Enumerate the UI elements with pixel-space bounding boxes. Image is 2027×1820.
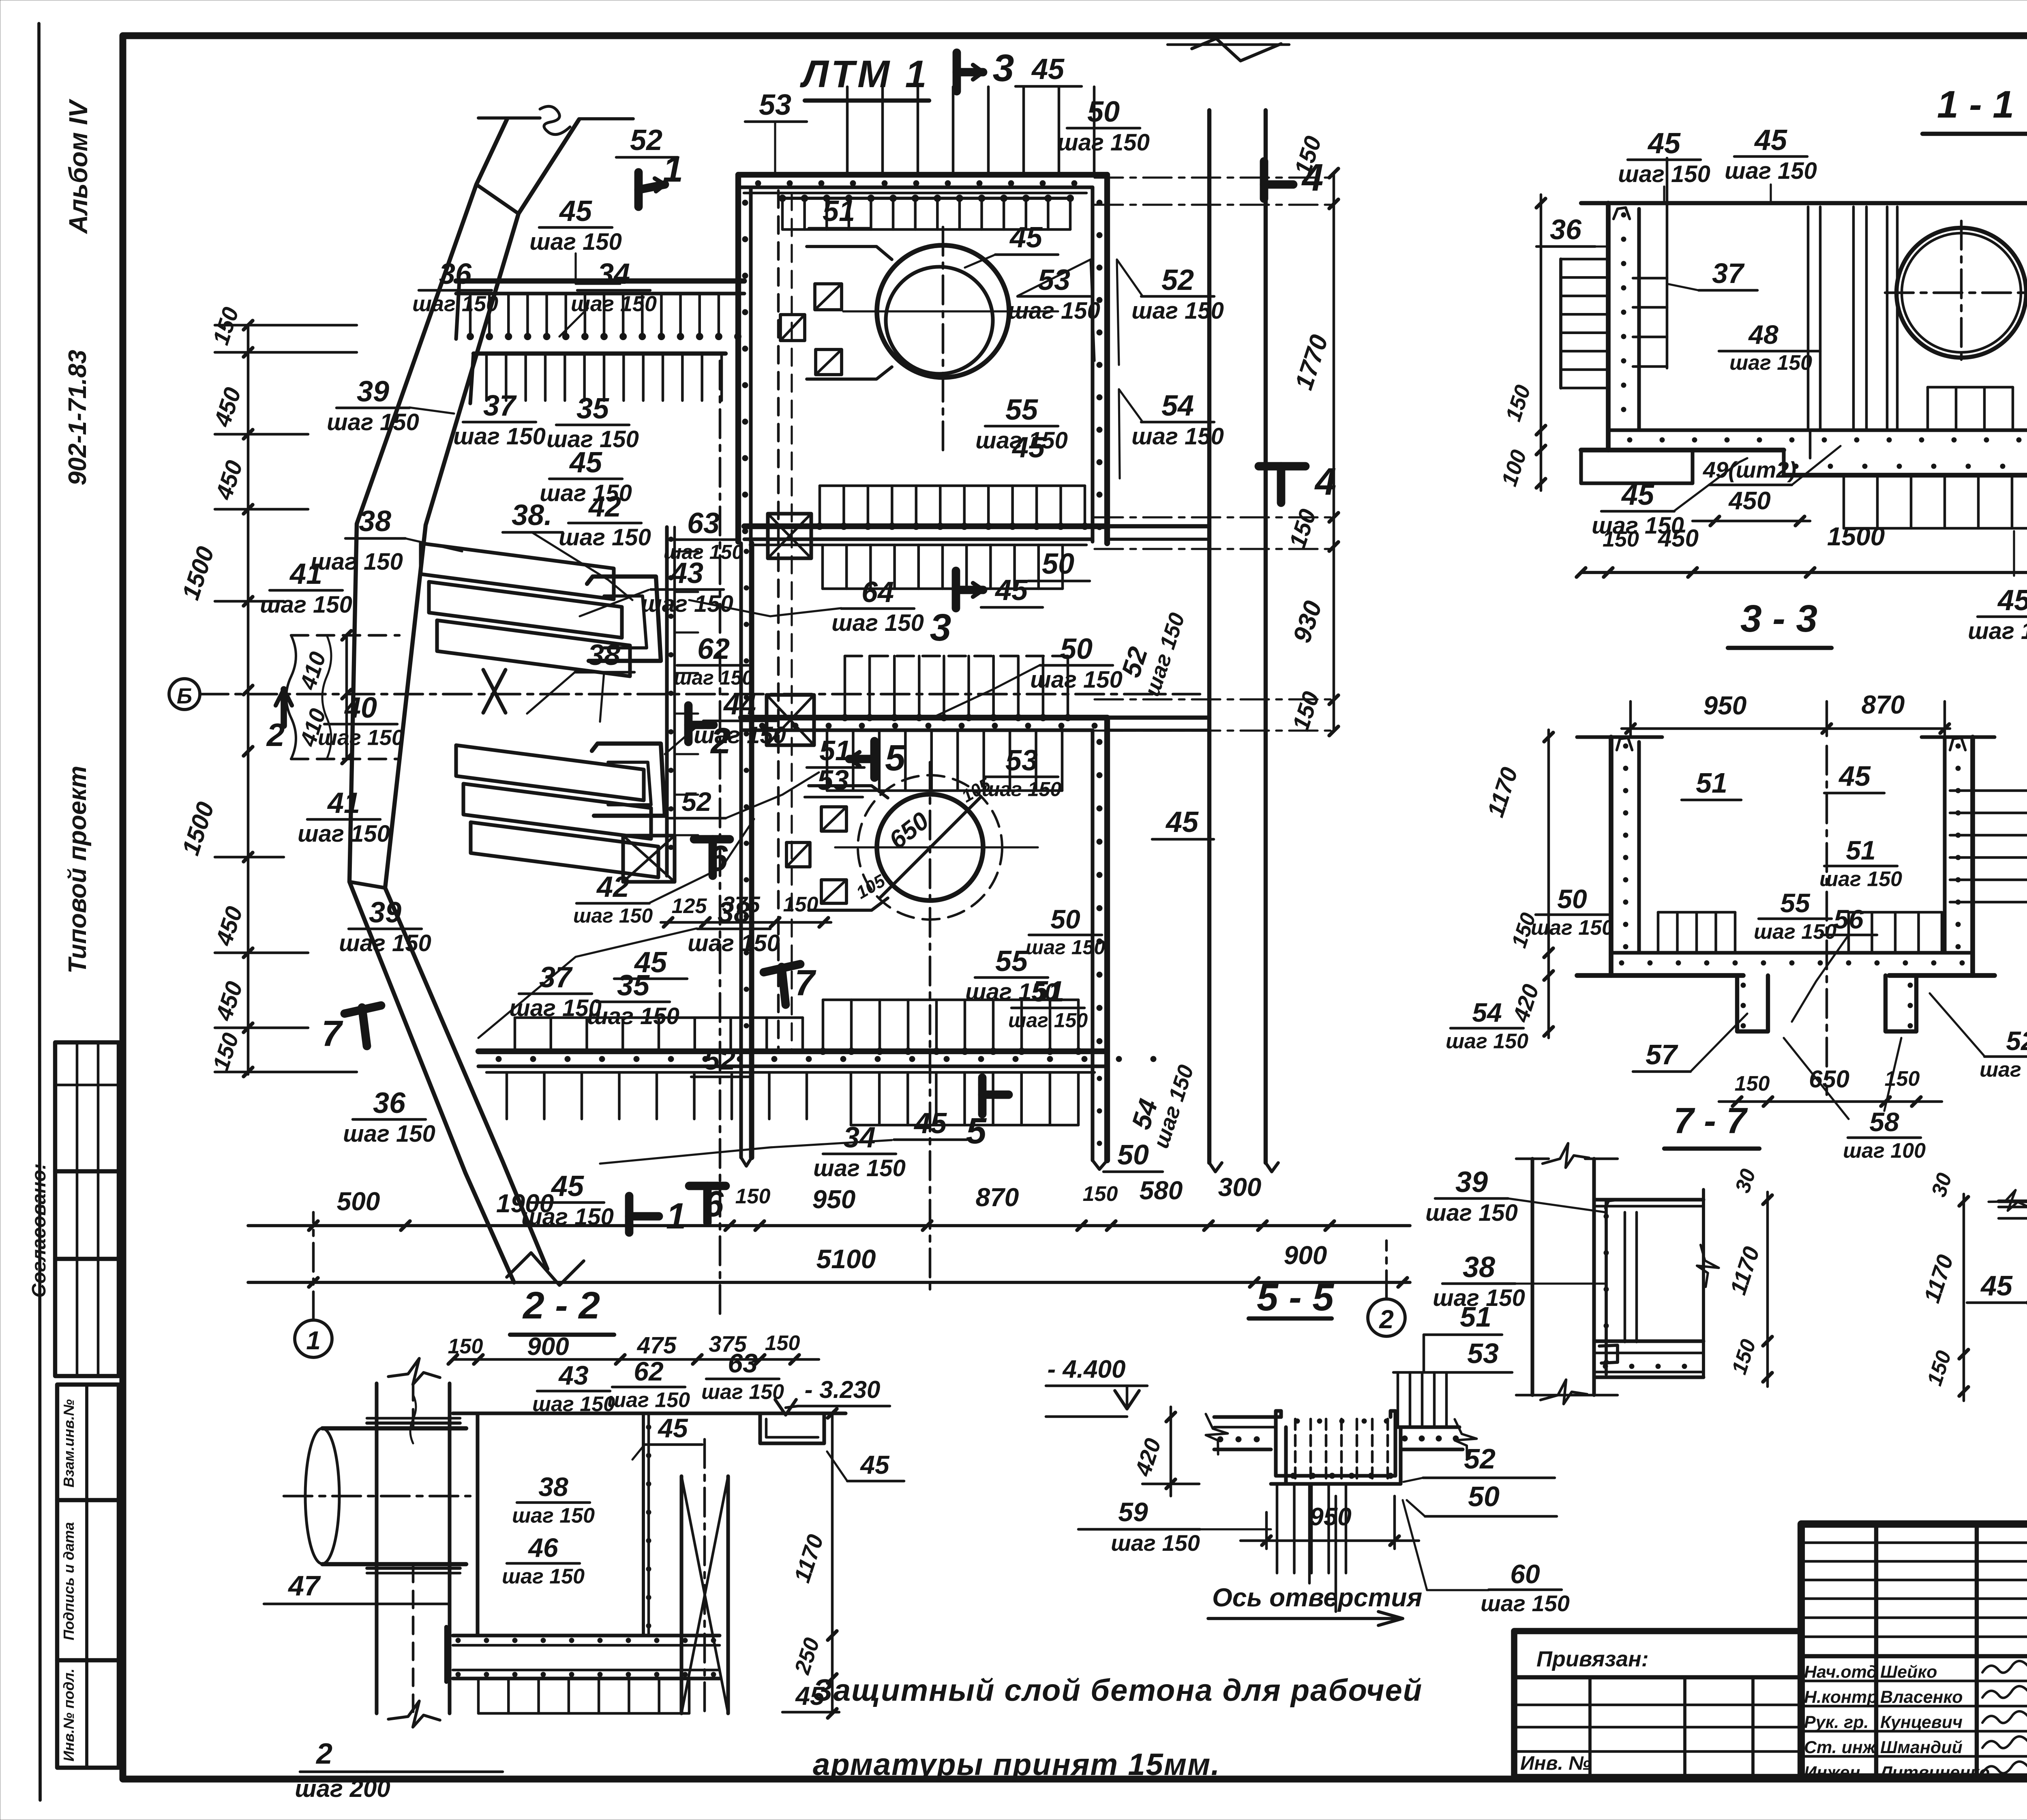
section mark 2 mid (684, 705, 693, 742)
3-3 bottom dims (1719, 1100, 1942, 1103)
svg-text:шаг 150: шаг 150 (559, 524, 651, 551)
svg-text:45: 45 (1009, 221, 1043, 254)
svg-text:шаг 150: шаг 150 (1968, 618, 2027, 644)
svg-text:шаг 150: шаг 150 (1446, 1029, 1528, 1053)
svg-text:1: 1 (306, 1326, 321, 1355)
svg-text:Инв. №: Инв. № (1520, 1753, 1591, 1774)
svg-text:52: 52 (2006, 1026, 2027, 1056)
1-1 left foot (1581, 450, 1693, 483)
svg-text:шаг 150: шаг 150 (1008, 298, 1100, 324)
svg-text:950: 950 (1703, 691, 1747, 720)
svg-text:шаг 150: шаг 150 (641, 591, 733, 617)
dashed circle around lower opening (858, 775, 1002, 920)
svg-text:300: 300 (1218, 1173, 1262, 1202)
svg-text:150: 150 (783, 893, 819, 916)
section mark 3 mid (952, 571, 960, 608)
svg-text:41: 41 (327, 787, 360, 819)
1-1 comb below floor (1843, 475, 1845, 528)
svg-text:1: 1 (663, 149, 683, 190)
svg-text:шаг 150: шаг 150 (529, 229, 622, 255)
svg-text:150: 150 (765, 1331, 800, 1355)
svg-text:53: 53 (1038, 264, 1070, 296)
svg-text:Н.контр: Н.контр (1804, 1687, 1878, 1707)
svg-text:шаг 150: шаг 150 (512, 1504, 595, 1527)
svg-text:38: 38 (588, 639, 620, 671)
dim 410 ticks near pipe (345, 635, 348, 759)
channel profile upper (587, 577, 661, 661)
svg-text:шаг 150: шаг 150 (339, 930, 431, 956)
svg-text:45: 45 (1997, 584, 2027, 617)
svg-text:Альбом IV: Альбом IV (64, 99, 93, 235)
comb below bottom wall (teeth down) (850, 1072, 853, 1125)
3-3 left dim chain (1547, 730, 1550, 1038)
6-6 top slab (1999, 1199, 2027, 1203)
7-7 bottom slab lines (1594, 1339, 1703, 1343)
svg-text:55: 55 (995, 945, 1028, 978)
comb above bottom wall lower right (822, 1000, 825, 1051)
svg-text:шаг 150: шаг 150 (1754, 920, 1836, 943)
vertical rebar pair mid plan (665, 527, 669, 876)
title block outer (1801, 1524, 2027, 1777)
svg-text:7 - 7: 7 - 7 (1673, 1101, 1748, 1141)
svg-text:64: 64 (861, 576, 894, 609)
5-5 left slab (1214, 1415, 1281, 1419)
7-7 vertical rebar (1605, 1200, 1608, 1374)
svg-text:37: 37 (483, 390, 517, 422)
svg-text:50: 50 (1060, 633, 1093, 665)
svg-text:52: 52 (704, 1044, 735, 1076)
svg-text:шаг 150: шаг 150 (1592, 512, 1684, 539)
7-7 hooks (1599, 1345, 1618, 1363)
svg-text:Рук. гр.: Рук. гр. (1804, 1713, 1868, 1732)
svg-text:шаг 150: шаг 150 (412, 292, 498, 316)
section mark 5 lower (978, 1078, 987, 1114)
svg-text:шаг 150: шаг 150 (1531, 916, 1613, 939)
axis circle Б (169, 679, 200, 710)
svg-text:45: 45 (1838, 760, 1871, 792)
svg-text:Б: Б (177, 684, 192, 708)
svg-text:- 3.230: - 3.230 (805, 1376, 881, 1403)
svg-text:шаг 150: шаг 150 (327, 409, 419, 435)
svg-text:шаг 150: шаг 150 (1057, 129, 1150, 156)
svg-text:Нач.отд: Нач.отд (1804, 1662, 1877, 1682)
svg-text:Инжен.: Инжен. (1804, 1763, 1865, 1782)
svg-text:шаг 150: шаг 150 (521, 1204, 614, 1230)
svg-text:4: 4 (1301, 156, 1324, 199)
svg-text:50: 50 (1087, 96, 1120, 128)
lower circle opening (877, 794, 983, 900)
section mark 7 left (345, 1005, 381, 1014)
svg-text:52: 52 (1464, 1443, 1496, 1475)
6-6 break left top (1988, 1184, 2027, 1216)
svg-text:шаг 150: шаг 150 (343, 1121, 435, 1147)
svg-text:45: 45 (1621, 479, 1654, 511)
svg-text:шаг 150: шаг 150 (1111, 1530, 1200, 1556)
7-7 wall verticals (1530, 1159, 1534, 1395)
svg-text:500: 500 (337, 1187, 380, 1216)
420 dim 5-5 (1170, 1407, 1172, 1496)
section mark 4 top (1260, 161, 1268, 199)
1-1 bottom dim row A (1693, 520, 1810, 523)
5-5 right slab (1395, 1425, 1459, 1429)
svg-text:55: 55 (1780, 888, 1811, 918)
svg-text:50: 50 (1557, 884, 1587, 914)
svg-text:Шейко: Шейко (1880, 1662, 1937, 1682)
svg-text:650: 650 (1809, 1065, 1849, 1093)
svg-text:62: 62 (697, 633, 730, 665)
svg-text:150: 150 (1735, 1072, 1770, 1095)
svg-text:шаг 200: шаг 200 (295, 1775, 390, 1802)
2-2 x-braced column (679, 1476, 683, 1713)
left margin table: Согласовано block (55, 1042, 119, 1376)
svg-text:870: 870 (1862, 690, 1905, 719)
section mark 5 upper (870, 741, 879, 778)
outer left margin line (39, 24, 40, 1800)
svg-text:7: 7 (795, 963, 816, 1003)
2-2 right step (63 corner) (760, 1413, 824, 1443)
svg-text:38: 38 (718, 896, 750, 929)
signature rows (1801, 1680, 2027, 1683)
svg-text:47: 47 (287, 1570, 321, 1601)
svg-text:38.: 38. (512, 499, 552, 532)
comb above bottom wall left part (514, 1018, 516, 1051)
upper room walls (plan) (738, 172, 1107, 178)
hatched anchor squares upper room (815, 284, 842, 310)
right vertical dim chain (1333, 173, 1335, 731)
centerlines of upper circle (942, 227, 945, 456)
comb below bottom wall (821, 545, 824, 589)
comb above bottom wall (819, 486, 821, 526)
lower room walls (741, 715, 1107, 720)
2-2 left end plate (444, 1627, 448, 1682)
channel profile lower (592, 744, 665, 816)
1-1 top hooks (1613, 208, 1630, 219)
svg-text:51: 51 (819, 735, 851, 766)
axis circle 2 (1368, 1299, 1405, 1336)
3-3 feet (1737, 975, 1768, 1031)
svg-text:34: 34 (843, 1121, 876, 1154)
crossed box at lower room top-left (767, 695, 814, 745)
2-2 bottom slab (453, 1633, 720, 1637)
2-2 pipe cylinder (305, 1428, 339, 1564)
5-5 trough (1276, 1411, 1395, 1476)
svg-text:5: 5 (885, 738, 906, 778)
5-5 comb top right (1397, 1372, 1399, 1425)
long right wall verticals (1207, 110, 1211, 1163)
svg-text:Типовой проект: Типовой проект (64, 766, 92, 974)
svg-text:Кунцевич: Кунцевич (1880, 1713, 1963, 1732)
svg-text:475: 475 (637, 1332, 677, 1359)
svg-text:39: 39 (369, 896, 401, 929)
svg-text:63: 63 (687, 507, 720, 540)
svg-text:Инв.№ подл.: Инв.№ подл. (60, 1668, 77, 1761)
svg-text:50: 50 (1050, 904, 1080, 934)
svg-text:580: 580 (1140, 1176, 1183, 1205)
svg-text:Защитный слой бетона для ра: Защитный слой бетона для рабочей (813, 1673, 1423, 1708)
crossed box upper corridor (768, 514, 811, 558)
svg-text:шаг 150: шаг 150 (311, 549, 403, 575)
svg-text:45: 45 (559, 195, 592, 227)
left margin table: inv block (57, 1385, 119, 1768)
svg-text:45: 45 (994, 574, 1028, 607)
axis circle 1 bottom (295, 1320, 332, 1357)
comb below bottom wall left part (506, 1072, 508, 1119)
second comb row (37/35) (474, 352, 726, 356)
break at top of right wall (1192, 39, 1281, 61)
svg-text:37: 37 (1712, 257, 1745, 289)
upper room bottom wall (744, 523, 1107, 529)
svg-text:55: 55 (1005, 394, 1038, 426)
svg-text:шаг 150: шаг 150 (813, 1155, 906, 1181)
2-2 top dims (453, 1358, 819, 1361)
svg-text:53: 53 (759, 89, 791, 121)
svg-text:Власенко: Власенко (1880, 1687, 1963, 1707)
section mark 6 mid (709, 839, 717, 876)
svg-text:шаг 150: шаг 150 (1481, 1591, 1570, 1616)
svg-text:38: 38 (359, 505, 391, 538)
7-7 right dim chain (1766, 1192, 1769, 1387)
svg-text:53: 53 (1467, 1338, 1499, 1369)
1-1 left dim chain (1540, 195, 1543, 491)
3-3 wall dots (1623, 744, 1628, 748)
svg-text:шаг 150: шаг 150 (1725, 158, 1817, 184)
svg-text:Литвиненко: Литвиненко (1879, 1763, 1990, 1782)
svg-text:50: 50 (1117, 1139, 1149, 1170)
svg-text:1 - 1: 1 - 1 (1937, 83, 2014, 126)
svg-text:2: 2 (1379, 1305, 1394, 1334)
svg-text:125: 125 (672, 894, 707, 918)
svg-text:43: 43 (670, 557, 703, 590)
svg-text:3: 3 (993, 47, 1014, 90)
svg-text:1500: 1500 (1827, 522, 1885, 551)
svg-text:3 - 3: 3 - 3 (1740, 597, 1817, 640)
svg-text:62: 62 (634, 1356, 664, 1386)
svg-text:51: 51 (1846, 835, 1875, 865)
1-1 left exterior comb (1559, 259, 1562, 388)
svg-text:60: 60 (1510, 1559, 1540, 1589)
svg-text:шаг 150: шаг 150 (1026, 936, 1105, 959)
section mark 1 top left (634, 172, 643, 207)
2-2 wall verticals (476, 1413, 479, 1636)
svg-text:шаг 150: шаг 150 (587, 1003, 679, 1029)
svg-text:51: 51 (1032, 975, 1064, 1008)
svg-text:45: 45 (1011, 431, 1045, 464)
svg-text:50: 50 (1468, 1481, 1500, 1512)
privyazan table (1514, 1631, 1801, 1777)
5-5 trough hatch (1294, 1419, 1297, 1479)
corridor left wall verticals (739, 543, 743, 1158)
lower room bottom wall / long bottom wall (478, 1048, 1107, 1054)
svg-text:2 - 2: 2 - 2 (522, 1284, 600, 1327)
svg-text:42: 42 (596, 871, 629, 903)
svg-text:59: 59 (1118, 1497, 1148, 1527)
svg-text:шаг 150: шаг 150 (694, 722, 786, 748)
pipe break at left (section 2 cut) (286, 635, 296, 759)
left dim chain of plan (247, 324, 250, 1074)
svg-text:43: 43 (558, 1360, 588, 1390)
svg-text:45: 45 (551, 1170, 584, 1203)
svg-text:38: 38 (1463, 1251, 1495, 1284)
svg-text:39: 39 (1455, 1166, 1488, 1198)
svg-text:45: 45 (1031, 53, 1065, 86)
2-2 slab top line (453, 1411, 846, 1415)
1-1 bottom dim row B (1581, 571, 2027, 574)
stair flight bars group 1 (421, 543, 614, 599)
3-3 top dims (1622, 727, 1950, 730)
svg-text:53: 53 (817, 764, 849, 796)
svg-text:46: 46 (527, 1533, 559, 1563)
svg-text:3: 3 (930, 606, 951, 649)
dots on lower room walls (759, 723, 765, 729)
svg-text:шаг 150: шаг 150 (1819, 867, 1902, 891)
svg-text:Шмандий: Шмандий (1880, 1738, 1963, 1757)
dash-dot level lines right (1095, 176, 1334, 178)
stair flight bars group 2 (456, 745, 644, 800)
svg-text:арматуры принят 15мм.: арматуры принят 15мм. (813, 1747, 1220, 1782)
ledge contour lower (809, 786, 888, 798)
section mark 7 mid (764, 964, 800, 972)
svg-text:42: 42 (588, 491, 621, 523)
break mark on band bottom (507, 1253, 584, 1285)
svg-text:шаг 150: шаг 150 (982, 778, 1061, 801)
scissors mark on axis (483, 670, 506, 713)
7-7 right slab (1594, 1198, 1703, 1201)
2-2 left break marks (388, 1355, 442, 1388)
svg-text:4: 4 (1314, 460, 1337, 503)
6-6 left dim chain (1963, 1194, 1965, 1401)
svg-text:шаг 150: шаг 150 (298, 821, 390, 847)
inclined wall band (349, 119, 514, 1282)
svg-text:54: 54 (1472, 997, 1502, 1027)
band joint line (476, 184, 519, 214)
svg-text:45: 45 (1980, 1270, 2013, 1301)
svg-text:Взам.инв.№: Взам.инв.№ (60, 1399, 77, 1488)
2-2 comb below slab (477, 1679, 480, 1713)
3-3 tank outline (1577, 735, 1662, 739)
950 dim 5-5 (1241, 1539, 1419, 1542)
svg-text:Ось отверстия: Ось отверстия (1212, 1583, 1422, 1612)
svg-text:- 4.400: - 4.400 (1047, 1355, 1125, 1383)
svg-text:Привязан:: Привязан: (1536, 1647, 1649, 1671)
svg-text:45: 45 (1165, 806, 1199, 838)
svg-text:950: 950 (812, 1185, 856, 1214)
1-1 inner verticals (1807, 207, 1810, 430)
svg-text:52: 52 (1161, 264, 1194, 296)
svg-text:51: 51 (823, 195, 855, 227)
svg-text:53: 53 (1005, 744, 1038, 777)
svg-text:52: 52 (630, 124, 662, 156)
rung lines on mid rebar column (675, 550, 698, 552)
comb inside top of upper room (bars 51) (782, 197, 1070, 200)
dash-dot vertical mid (719, 361, 722, 1314)
svg-text:шаг 150: шаг 150 (453, 423, 546, 450)
svg-text:450: 450 (1728, 487, 1770, 515)
svg-text:37: 37 (539, 961, 573, 994)
svg-text:Ст. инж: Ст. инж (1804, 1738, 1877, 1757)
svg-text:51: 51 (1460, 1301, 1491, 1333)
svg-text:шаг 150: шаг 150 (831, 610, 924, 636)
section mark 4 right (1259, 462, 1305, 471)
svg-text:45: 45 (1754, 124, 1787, 156)
svg-text:шаг 150: шаг 150 (674, 667, 753, 689)
svg-text:шаг 150: шаг 150 (1008, 1009, 1088, 1032)
dashed formwork verticals (777, 191, 780, 1050)
1-1 tank outline (1581, 201, 2027, 205)
svg-text:902-1-71.83: 902-1-71.83 (64, 350, 92, 485)
2-2 pipe column (375, 1383, 378, 1713)
svg-text:шаг 150: шаг 150 (607, 1388, 690, 1412)
svg-text:2: 2 (315, 1738, 332, 1770)
svg-text:900: 900 (1284, 1241, 1327, 1270)
svg-text:150: 150 (735, 1185, 771, 1208)
svg-text:900: 900 (527, 1333, 569, 1361)
svg-text:950: 950 (1309, 1503, 1351, 1531)
upper circle opening (877, 245, 1009, 377)
3-3 top hooks (1617, 738, 1632, 750)
svg-text:Согласовано:: Согласовано: (28, 1163, 50, 1298)
svg-text:48: 48 (1748, 319, 1778, 349)
svg-text:52: 52 (681, 787, 711, 817)
svg-text:41: 41 (289, 558, 322, 590)
svg-text:44: 44 (723, 688, 756, 721)
3-3 inside combs (1657, 912, 1660, 953)
svg-text:54: 54 (1161, 390, 1194, 422)
break mark on band top (478, 116, 540, 120)
svg-text:5100: 5100 (816, 1244, 876, 1274)
svg-text:шаг 150: шаг 150 (1131, 298, 1224, 324)
svg-text:40: 40 (344, 692, 377, 724)
svg-text:57: 57 (1646, 1039, 1678, 1070)
svg-text:шаг 150: шаг 150 (260, 592, 352, 618)
5-5 comb below (1276, 1486, 1279, 1573)
svg-text:45: 45 (569, 446, 602, 479)
svg-text:150: 150 (448, 1335, 483, 1358)
svg-text:шаг 100: шаг 100 (1843, 1139, 1926, 1162)
svg-text:ЛТМ 1: ЛТМ 1 (800, 53, 929, 96)
svg-text:5: 5 (966, 1111, 987, 1151)
svg-text:45: 45 (657, 1413, 688, 1443)
dots along upper room walls (755, 180, 761, 186)
comb below lower room top wall (51) (826, 730, 829, 791)
svg-text:5 - 5: 5 - 5 (1257, 1276, 1334, 1319)
svg-text:шаг 150: шаг 150 (1131, 423, 1224, 450)
upper-left exterior wall with comb (36/34) (456, 279, 744, 284)
3-3 centerline (1826, 746, 1828, 1095)
1-1 circle (1896, 228, 2026, 358)
1-1 short bars near floor center (1926, 387, 1929, 430)
hatched squares lower room (821, 807, 846, 831)
lower circle centerlines (929, 762, 932, 1289)
svg-text:шаг 150: шаг 150 (532, 1392, 615, 1416)
svg-text:35: 35 (576, 392, 609, 425)
svg-text:45: 45 (1647, 127, 1681, 160)
bottom dimension row 1 (248, 1224, 1410, 1227)
svg-text:1: 1 (666, 1196, 686, 1237)
svg-text:45: 45 (913, 1107, 947, 1140)
diameter 650 line (880, 797, 981, 898)
svg-text:50: 50 (1042, 548, 1074, 580)
svg-text:38: 38 (538, 1472, 568, 1502)
crossed box lower (623, 836, 675, 882)
svg-text:шаг 150: шаг 150 (1729, 351, 1812, 375)
svg-text:870: 870 (976, 1183, 1019, 1212)
bottom dimension row 2 (5100 / 900) (248, 1281, 1410, 1284)
svg-text:шаг 150: шаг 150 (1618, 161, 1710, 187)
1-1 wall bar stubs left (1666, 158, 1669, 368)
comb above lower room top wall (844, 656, 846, 718)
svg-text:шаг 150: шаг 150 (318, 725, 404, 750)
svg-text:36: 36 (373, 1087, 406, 1119)
